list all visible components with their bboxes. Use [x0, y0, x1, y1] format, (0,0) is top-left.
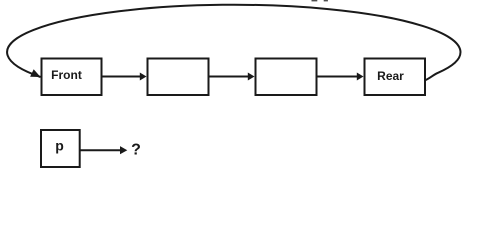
wire circular link arc from Rear to Front	[7, 5, 460, 81]
node box p	[41, 130, 80, 167]
wire arrow box2 to box3	[210, 76, 250, 78]
svg-text:p: p	[55, 138, 64, 154]
arrowhead into box2	[140, 73, 147, 81]
arrowhead into Front left side	[30, 69, 40, 77]
svg-text:Rear: Rear	[377, 69, 404, 83]
arrowhead of p pointer	[120, 146, 127, 154]
svg-text:?: ?	[131, 142, 141, 159]
node box 2	[148, 59, 209, 96]
svg-text:Front: Front	[51, 68, 82, 82]
node box Front	[42, 59, 102, 96]
clipped text remnant right	[324, 0, 328, 1]
arrowhead into Rear	[357, 73, 364, 81]
arrowhead into box3	[248, 73, 255, 81]
wire arrow box3 to Rear	[318, 76, 359, 78]
node box 3	[256, 59, 317, 96]
wire arrow Front to box2	[103, 76, 142, 78]
wire arrow p to ?	[81, 149, 122, 151]
node box Rear	[365, 59, 426, 96]
clipped text remnant left	[312, 0, 318, 1]
